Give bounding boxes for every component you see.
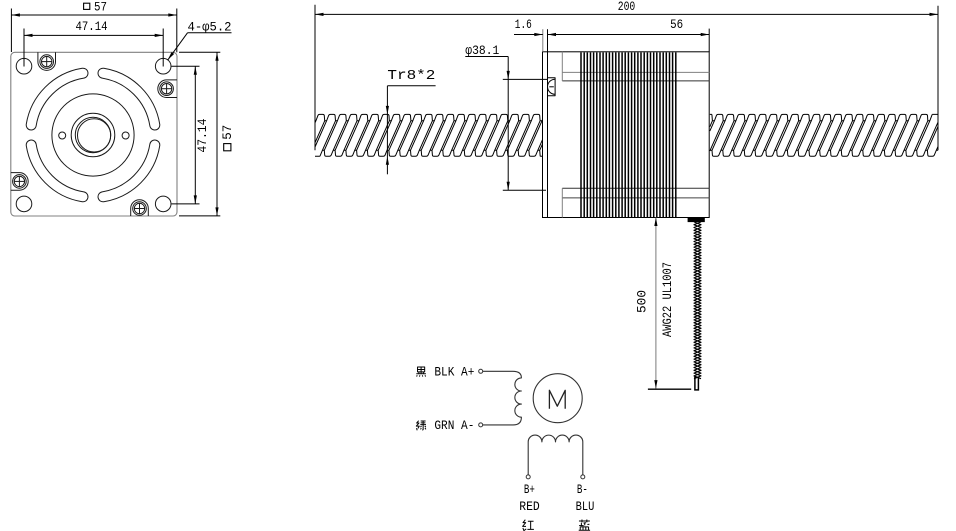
svg-text:1.6: 1.6 (515, 17, 532, 32)
svg-text:47.14: 47.14 (76, 19, 108, 34)
svg-text:GRN A-: GRN A- (434, 419, 474, 433)
svg-text:4-φ5.2: 4-φ5.2 (188, 19, 232, 34)
svg-text:47.14: 47.14 (195, 118, 210, 152)
svg-text:56: 56 (670, 17, 683, 32)
svg-text:BLU: BLU (576, 500, 595, 514)
svg-text:B-: B- (577, 483, 588, 497)
svg-text:B+: B+ (524, 483, 535, 497)
svg-text:AWG22 UL1007: AWG22 UL1007 (661, 262, 675, 337)
svg-text:BLK A+: BLK A+ (434, 365, 474, 379)
svg-text:57: 57 (220, 125, 235, 140)
svg-text:57: 57 (94, 0, 107, 15)
svg-text:500: 500 (634, 290, 649, 313)
svg-text:Tr8*2: Tr8*2 (387, 69, 435, 84)
svg-text:RED: RED (519, 500, 540, 514)
svg-text:φ38.1: φ38.1 (465, 43, 499, 58)
svg-text:200: 200 (618, 0, 636, 14)
